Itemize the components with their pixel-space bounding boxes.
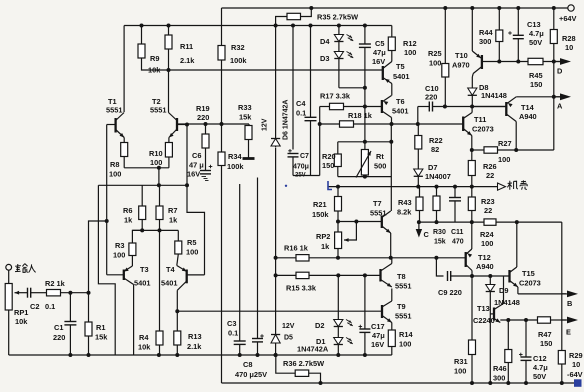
svg-text:R24: R24 — [480, 230, 494, 239]
output E arrow — [561, 319, 568, 321]
capacitor C1 — [69, 293, 71, 322]
resistor R29 — [558, 351, 565, 365]
capacitor C3 — [239, 184, 241, 341]
svg-text:12V: 12V — [262, 118, 269, 131]
svg-text:15k: 15k — [95, 333, 108, 342]
resistor R13 — [176, 290, 178, 311]
svg-text:82: 82 — [431, 145, 439, 154]
svg-text:50V: 50V — [533, 372, 546, 381]
wire T1 collector — [123, 26, 125, 113]
wire second top rail — [124, 25, 392, 27]
svg-text:5551: 5551 — [395, 312, 411, 321]
svg-text:A940: A940 — [476, 262, 494, 271]
svg-text:47 μ: 47 μ — [189, 161, 204, 170]
svg-text:R28: R28 — [562, 34, 576, 43]
wire E output — [500, 319, 537, 321]
svg-text:0.1: 0.1 — [228, 329, 238, 338]
svg-text:100: 100 — [399, 340, 411, 349]
resistor R35 — [276, 17, 287, 26]
transistor T10 — [470, 6, 474, 10]
svg-text:T10: T10 — [455, 51, 468, 60]
svg-text:D4: D4 — [320, 37, 330, 46]
svg-text:R3: R3 — [115, 241, 124, 250]
svg-text:5551: 5551 — [395, 282, 411, 291]
svg-text:C12: C12 — [533, 354, 547, 363]
resistor R19 — [205, 124, 207, 134]
wire +64V top rail — [222, 7, 568, 9]
wire T2/T4 base feedback — [187, 125, 205, 275]
resistor R32 — [221, 8, 223, 46]
wire zener column — [275, 26, 277, 356]
svg-text:A940: A940 — [519, 112, 537, 121]
wire R17 column — [319, 124, 321, 176]
wire T1 base to T3 base — [106, 125, 108, 275]
terminal +64V — [568, 5, 574, 11]
svg-text:R31: R31 — [454, 357, 468, 366]
svg-text:5551: 5551 — [150, 106, 166, 115]
capacitor C11 — [453, 185, 457, 189]
svg-text:10: 10 — [565, 43, 573, 52]
svg-text:R15 3.3k: R15 3.3k — [286, 284, 317, 293]
diode D4 — [337, 24, 341, 28]
svg-text:C7: C7 — [300, 153, 309, 160]
capacitor C9 — [447, 271, 449, 281]
resistor R22 — [417, 124, 419, 136]
svg-text:R30: R30 — [433, 229, 446, 236]
wire C9 jog — [434, 256, 438, 260]
transistor T8 — [379, 269, 381, 282]
blue speck — [285, 185, 287, 187]
output A arrow — [516, 96, 560, 98]
svg-text:R22: R22 — [429, 136, 443, 145]
svg-text:R7: R7 — [168, 206, 177, 215]
svg-text:150: 150 — [322, 161, 334, 170]
svg-text:150: 150 — [540, 339, 552, 348]
svg-text:15k: 15k — [239, 113, 252, 122]
capacitor C12 — [525, 320, 527, 357]
chassis arrow — [498, 183, 506, 190]
wire input to base line — [89, 221, 107, 293]
svg-text:C3: C3 — [227, 319, 236, 328]
wire input node — [61, 292, 89, 294]
wire base rail y124 right — [320, 123, 464, 125]
wire base rail y124 left — [177, 123, 249, 125]
resistor R16 — [296, 255, 309, 261]
zener D6 — [270, 133, 281, 148]
resistor R30 — [435, 185, 439, 189]
wire y258 node — [276, 257, 466, 259]
svg-text:100: 100 — [429, 59, 441, 68]
svg-text:RP1: RP1 — [14, 308, 28, 317]
svg-text:R6: R6 — [123, 206, 132, 215]
wire mid rail y186 — [328, 186, 498, 188]
svg-text:16V: 16V — [372, 57, 385, 66]
svg-text:0.1: 0.1 — [296, 109, 306, 118]
svg-text:R33: R33 — [238, 103, 252, 112]
svg-text:D7: D7 — [428, 163, 437, 172]
capacitor C5 — [363, 24, 367, 28]
svg-text:5401: 5401 — [161, 279, 177, 288]
svg-text:300: 300 — [479, 37, 491, 46]
resistor R23 — [471, 187, 473, 197]
wire T7 base — [338, 221, 382, 223]
wire load node y230 — [132, 229, 178, 231]
svg-text:R12: R12 — [403, 39, 417, 48]
svg-text:T13: T13 — [477, 304, 490, 313]
resistor R14 — [391, 323, 393, 331]
resistor R45 — [528, 58, 543, 64]
svg-text:R17 3.3k: R17 3.3k — [320, 92, 351, 101]
svg-text:4.7μ: 4.7μ — [533, 363, 548, 372]
svg-text:C2: C2 — [30, 302, 39, 311]
resistor R8 — [123, 138, 125, 143]
resistor R12 — [391, 26, 393, 38]
transistor T9 — [381, 305, 383, 318]
transistor T3 — [123, 270, 125, 281]
svg-text:A970: A970 — [452, 61, 470, 70]
svg-text:470: 470 — [452, 239, 464, 246]
svg-text:D2: D2 — [315, 321, 324, 330]
svg-text:T14: T14 — [521, 103, 535, 112]
svg-text:T12: T12 — [478, 253, 491, 262]
resistor R33 — [248, 124, 250, 126]
svg-text:T15: T15 — [522, 269, 535, 278]
svg-text:500: 500 — [374, 162, 386, 171]
resistor R6 — [141, 185, 143, 206]
svg-text:C8: C8 — [243, 360, 252, 369]
resistor R34 — [221, 60, 223, 152]
svg-text:C2073: C2073 — [472, 125, 494, 134]
svg-text:22: 22 — [486, 171, 494, 180]
transistor T1 — [114, 118, 116, 133]
svg-text:R1: R1 — [96, 323, 105, 332]
output C arrow — [417, 220, 421, 224]
ground R33 — [243, 157, 255, 160]
svg-text:12V: 12V — [282, 323, 295, 330]
svg-text:10: 10 — [572, 360, 580, 369]
svg-text:R47: R47 — [538, 330, 552, 339]
output D arrow — [543, 61, 560, 63]
transistor T13 — [490, 313, 494, 315]
svg-text:R36 2.7k5W: R36 2.7k5W — [283, 359, 324, 368]
svg-text:1N4742A: 1N4742A — [297, 345, 329, 354]
svg-text:R32: R32 — [231, 43, 245, 52]
resistor R4 — [159, 230, 161, 331]
transistor T15 — [508, 270, 510, 283]
resistor R2 — [31, 292, 47, 294]
potentiometer RP1 — [8, 270, 10, 283]
resistor R28 — [552, 6, 556, 10]
svg-text:100: 100 — [481, 239, 493, 248]
wire T3 collector — [133, 285, 135, 356]
capacitor C17 — [364, 275, 366, 329]
svg-text:100: 100 — [109, 170, 121, 179]
wire Rt bottom — [338, 176, 392, 178]
svg-text:100: 100 — [113, 251, 125, 260]
svg-text:Rt: Rt — [376, 152, 384, 161]
svg-text:1k: 1k — [169, 216, 178, 225]
svg-text:C9 220: C9 220 — [438, 288, 462, 297]
svg-text:+64V: +64V — [559, 14, 577, 23]
wire D output — [499, 61, 528, 63]
resistor R3 — [131, 256, 133, 267]
svg-text:R29: R29 — [569, 351, 583, 360]
capacitor C8 — [257, 178, 259, 339]
resistor R21 — [336, 185, 340, 189]
svg-text:E: E — [566, 328, 571, 337]
wire cap join — [293, 175, 320, 177]
wire left rail y185 — [98, 184, 187, 186]
svg-text:R23: R23 — [481, 197, 495, 206]
wire y275 left — [276, 274, 381, 276]
svg-text:-64V: -64V — [567, 370, 583, 379]
svg-text:100: 100 — [404, 48, 416, 57]
wire R32 column to bottom — [221, 166, 223, 384]
potentiometer RP2 — [337, 222, 339, 233]
capacitor C6 — [209, 166, 213, 168]
svg-text:220: 220 — [197, 113, 209, 122]
svg-text:A: A — [557, 102, 563, 111]
svg-text:R19: R19 — [196, 104, 210, 113]
svg-text:5401: 5401 — [392, 107, 408, 116]
resistor R9 — [140, 24, 144, 28]
svg-text:D6 1N4742A: D6 1N4742A — [283, 100, 290, 140]
svg-text:D3: D3 — [320, 54, 329, 63]
svg-text:2.1k: 2.1k — [180, 56, 195, 65]
svg-text:C1: C1 — [54, 323, 63, 332]
resistor R7 — [159, 185, 161, 206]
svg-text:C11: C11 — [451, 229, 464, 236]
transistor T7 — [381, 216, 383, 229]
svg-text:0.1: 0.1 — [45, 302, 55, 311]
wire LED bottom — [338, 59, 340, 88]
svg-text:5401: 5401 — [134, 279, 150, 288]
svg-text:1k: 1k — [124, 216, 133, 225]
svg-text:R35 2.7k5W: R35 2.7k5W — [317, 13, 358, 22]
resistor R15 — [296, 272, 309, 278]
wire T7 collector column — [390, 124, 392, 211]
wire y106 node — [434, 106, 506, 108]
wire T14 collector — [515, 122, 517, 151]
transistor T2 — [168, 70, 170, 113]
blue terminal — [574, 379, 582, 387]
svg-text:T4: T4 — [166, 265, 176, 274]
svg-text:1N4148: 1N4148 — [494, 298, 520, 307]
svg-text:10k: 10k — [15, 317, 28, 326]
terminal input — [6, 264, 12, 270]
svg-text:470 μ25V: 470 μ25V — [235, 370, 267, 379]
svg-text:T6: T6 — [396, 97, 405, 106]
svg-text:5401: 5401 — [393, 72, 409, 81]
svg-text:D5: D5 — [284, 335, 293, 342]
svg-text:RP2: RP2 — [316, 232, 330, 241]
svg-text:100: 100 — [186, 248, 198, 257]
wire R28 column down — [553, 62, 555, 151]
svg-text:8.2k: 8.2k — [397, 208, 412, 217]
svg-text:R11: R11 — [180, 42, 193, 51]
svg-text:2.1k: 2.1k — [187, 342, 202, 351]
svg-text:R2 1k: R2 1k — [45, 279, 66, 288]
transistor T14 — [505, 102, 507, 116]
svg-text:R44: R44 — [479, 28, 493, 37]
resistor R36 — [276, 355, 295, 373]
resistor R1 — [88, 293, 90, 322]
capacitor C4 — [309, 24, 313, 28]
diode D7 — [417, 149, 419, 169]
resistor R24 — [484, 219, 496, 225]
svg-text:T3: T3 — [140, 265, 149, 274]
svg-text:150: 150 — [530, 80, 542, 89]
svg-text:220: 220 — [53, 333, 65, 342]
svg-text:R14: R14 — [399, 330, 413, 339]
diode D2 — [337, 275, 339, 319]
resistor R46 — [507, 320, 509, 350]
wire T12 collector to R31 — [470, 274, 474, 278]
resistor R44 — [497, 6, 501, 10]
svg-text:1k: 1k — [321, 242, 330, 251]
svg-text:22: 22 — [484, 206, 492, 215]
svg-text:C2073: C2073 — [519, 279, 541, 288]
svg-text:R26: R26 — [483, 162, 497, 171]
svg-text:R34: R34 — [228, 152, 242, 161]
svg-text:R16 1k: R16 1k — [284, 244, 309, 253]
svg-text:R10: R10 — [149, 149, 163, 158]
capacitor C2 — [27, 288, 29, 298]
svg-text:T9: T9 — [397, 302, 406, 311]
svg-text:T7: T7 — [373, 199, 382, 208]
svg-text:470μ: 470μ — [293, 164, 309, 171]
svg-text:R21: R21 — [313, 200, 327, 209]
svg-text:C: C — [424, 230, 430, 239]
wire bottom -64V rail — [222, 382, 576, 384]
svg-text:C4: C4 — [296, 99, 306, 108]
svg-text:4.7μ: 4.7μ — [529, 29, 544, 38]
capacitor C10 — [418, 106, 430, 108]
svg-text:B: B — [567, 299, 572, 308]
svg-text:T5: T5 — [396, 62, 405, 71]
svg-text:47μ: 47μ — [372, 331, 385, 340]
diode D9 — [488, 274, 492, 278]
wire bottom rail y355 — [9, 354, 392, 356]
svg-text:R4: R4 — [139, 333, 149, 342]
svg-text:R20: R20 — [322, 152, 336, 161]
svg-text:R45: R45 — [529, 71, 543, 80]
svg-text:100: 100 — [150, 158, 162, 167]
resistor R26 — [471, 150, 473, 161]
svg-text:R13: R13 — [188, 332, 202, 341]
transistor T4 — [186, 270, 188, 284]
transistor T12 — [471, 222, 473, 249]
svg-text:R18 1k: R18 1k — [348, 111, 373, 120]
wire R27 node — [516, 149, 554, 151]
svg-text:100: 100 — [454, 367, 466, 376]
output B arrow — [561, 293, 568, 295]
svg-text:R25: R25 — [428, 49, 442, 58]
svg-text:R9: R9 — [150, 54, 159, 63]
wire Rt top — [338, 141, 392, 143]
wire feedback left — [98, 185, 115, 355]
resistor R27 — [484, 147, 498, 153]
svg-text:50V: 50V — [529, 38, 542, 47]
diode D8 — [471, 77, 473, 88]
resistor R43 — [419, 187, 421, 197]
svg-text:C17: C17 — [371, 322, 385, 331]
resistor R47 — [538, 317, 551, 323]
resistor R20 — [337, 142, 339, 154]
transistor T11 — [462, 117, 464, 132]
resistor R17 — [320, 106, 330, 108]
wire tail node — [124, 167, 169, 169]
svg-text:100k: 100k — [227, 162, 244, 171]
svg-text:C6: C6 — [192, 151, 201, 160]
svg-text:C13: C13 — [527, 20, 541, 29]
zener D5 — [270, 331, 281, 344]
resistor R5 — [177, 230, 179, 241]
capacitor C13 — [516, 6, 520, 10]
transistor T6 — [381, 100, 383, 113]
svg-text:47μ: 47μ — [373, 48, 386, 57]
svg-text:1N4007: 1N4007 — [425, 172, 451, 181]
svg-text:150k: 150k — [312, 210, 329, 219]
svg-text:15k: 15k — [434, 239, 446, 246]
transistor T5 — [382, 66, 384, 80]
wire base rail y70 — [142, 58, 383, 70]
capacitor C7 — [291, 24, 295, 28]
wire y311 node — [177, 310, 382, 312]
wire C10 left jog — [417, 107, 419, 125]
resistor R18 — [340, 121, 354, 127]
svg-text:T8: T8 — [397, 272, 406, 281]
wire R24 node column — [561, 222, 563, 350]
svg-text:C2240: C2240 — [473, 316, 495, 325]
svg-text:100k: 100k — [230, 56, 247, 65]
resistor R25 — [443, 6, 447, 10]
svg-text:16V: 16V — [371, 340, 384, 349]
svg-text:5551: 5551 — [106, 106, 122, 115]
svg-text:10k: 10k — [148, 66, 161, 75]
svg-text:300: 300 — [493, 374, 505, 383]
wire B output — [517, 287, 519, 294]
svg-text:D: D — [557, 67, 563, 76]
svg-text:220: 220 — [425, 93, 437, 102]
blue mark L — [328, 181, 332, 190]
svg-text:16V: 16V — [187, 170, 200, 179]
resistor R31 — [469, 340, 476, 355]
svg-text:100: 100 — [498, 155, 510, 164]
svg-text:10k: 10k — [138, 343, 151, 352]
svg-text:R5: R5 — [187, 238, 196, 247]
svg-text:R46: R46 — [493, 364, 507, 373]
svg-text:R27: R27 — [498, 139, 512, 148]
svg-text:1N4148: 1N4148 — [481, 91, 507, 100]
svg-text:5551: 5551 — [370, 209, 386, 218]
resistor R10 — [168, 138, 170, 143]
resistor R11 — [167, 24, 171, 28]
wire y222 node — [419, 221, 562, 223]
svg-text:R43: R43 — [398, 198, 412, 207]
thermistor Rt — [364, 142, 366, 150]
svg-text:R8: R8 — [110, 160, 119, 169]
svg-text:C5: C5 — [375, 39, 384, 48]
svg-text:T11: T11 — [474, 115, 486, 124]
diode D3 — [338, 42, 340, 52]
diode D1 — [337, 327, 339, 338]
